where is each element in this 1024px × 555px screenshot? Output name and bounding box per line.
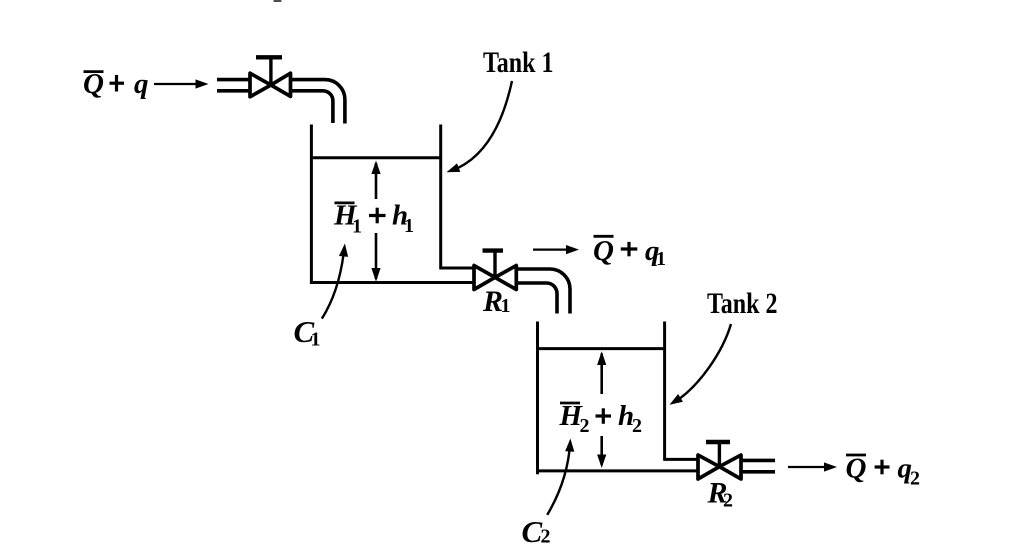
svg-text:Tank 2: Tank 2 — [707, 287, 778, 320]
svg-text:1: 1 — [352, 216, 362, 238]
pipe (R1 to tank 2) — [516, 269, 570, 314]
svg-text:q: q — [134, 68, 149, 100]
label H2+h2 — [559, 400, 643, 437]
svg-text:C: C — [522, 514, 543, 549]
svg-text:2: 2 — [910, 468, 920, 490]
label C2 — [522, 514, 551, 549]
tank 2 bottom — [536, 469, 699, 472]
svg-text:2: 2 — [541, 526, 551, 548]
tank 2 outlet top wall — [665, 458, 699, 461]
label H1+h1 — [333, 200, 414, 238]
svg-text:1: 1 — [404, 215, 414, 237]
svg-text:1: 1 — [501, 295, 511, 317]
pipe (inlet, left of valve) — [217, 80, 250, 91]
stray scan mark (top edge) — [274, 0, 282, 2]
label Q+q1 — [593, 235, 666, 270]
label Q+q (inflow) — [83, 68, 149, 100]
svg-text:1: 1 — [311, 329, 321, 351]
svg-text:2: 2 — [632, 415, 642, 437]
arrow (inflow) — [154, 79, 209, 88]
svg-text:2: 2 — [723, 490, 733, 512]
tank 2 left wall — [536, 322, 539, 475]
svg-text:Q: Q — [846, 453, 867, 485]
pipe (inlet, valve to tank 1) — [291, 80, 345, 124]
svg-text:Q: Q — [593, 235, 614, 267]
label C1 — [294, 314, 321, 351]
head arrow H2+h2 (double-headed) — [597, 351, 606, 468]
arrow (outflow q2) — [788, 462, 837, 471]
valve R2 — [698, 442, 741, 479]
svg-text:1: 1 — [656, 248, 666, 270]
label R2 — [707, 477, 734, 512]
pointer arrow to tank 2 — [667, 324, 731, 409]
pointer arrow from C2 — [547, 438, 575, 515]
pointer arrow to tank 1 — [445, 81, 512, 177]
valve R1 — [474, 251, 516, 290]
label Q+q2 — [846, 453, 921, 490]
pointer arrow from C1 — [322, 243, 350, 319]
tank 1 water surface — [310, 156, 442, 159]
tank 1 bottom — [310, 281, 475, 284]
tank 2 water surface — [536, 347, 666, 350]
label R1 — [482, 285, 511, 318]
head arrow H1+h1 (double-headed) — [371, 161, 380, 282]
arrow (outflow q1) — [533, 245, 579, 254]
tank 1 outlet top wall — [441, 267, 475, 270]
tank 2 right wall — [663, 322, 666, 461]
svg-text:Tank 1: Tank 1 — [483, 46, 554, 79]
tank 1 left wall — [310, 125, 313, 285]
pipe stub (outflow q2) — [741, 460, 775, 471]
svg-text:2: 2 — [580, 415, 590, 437]
control valve (inlet) — [250, 57, 291, 97]
tank 1 right wall — [439, 125, 442, 270]
